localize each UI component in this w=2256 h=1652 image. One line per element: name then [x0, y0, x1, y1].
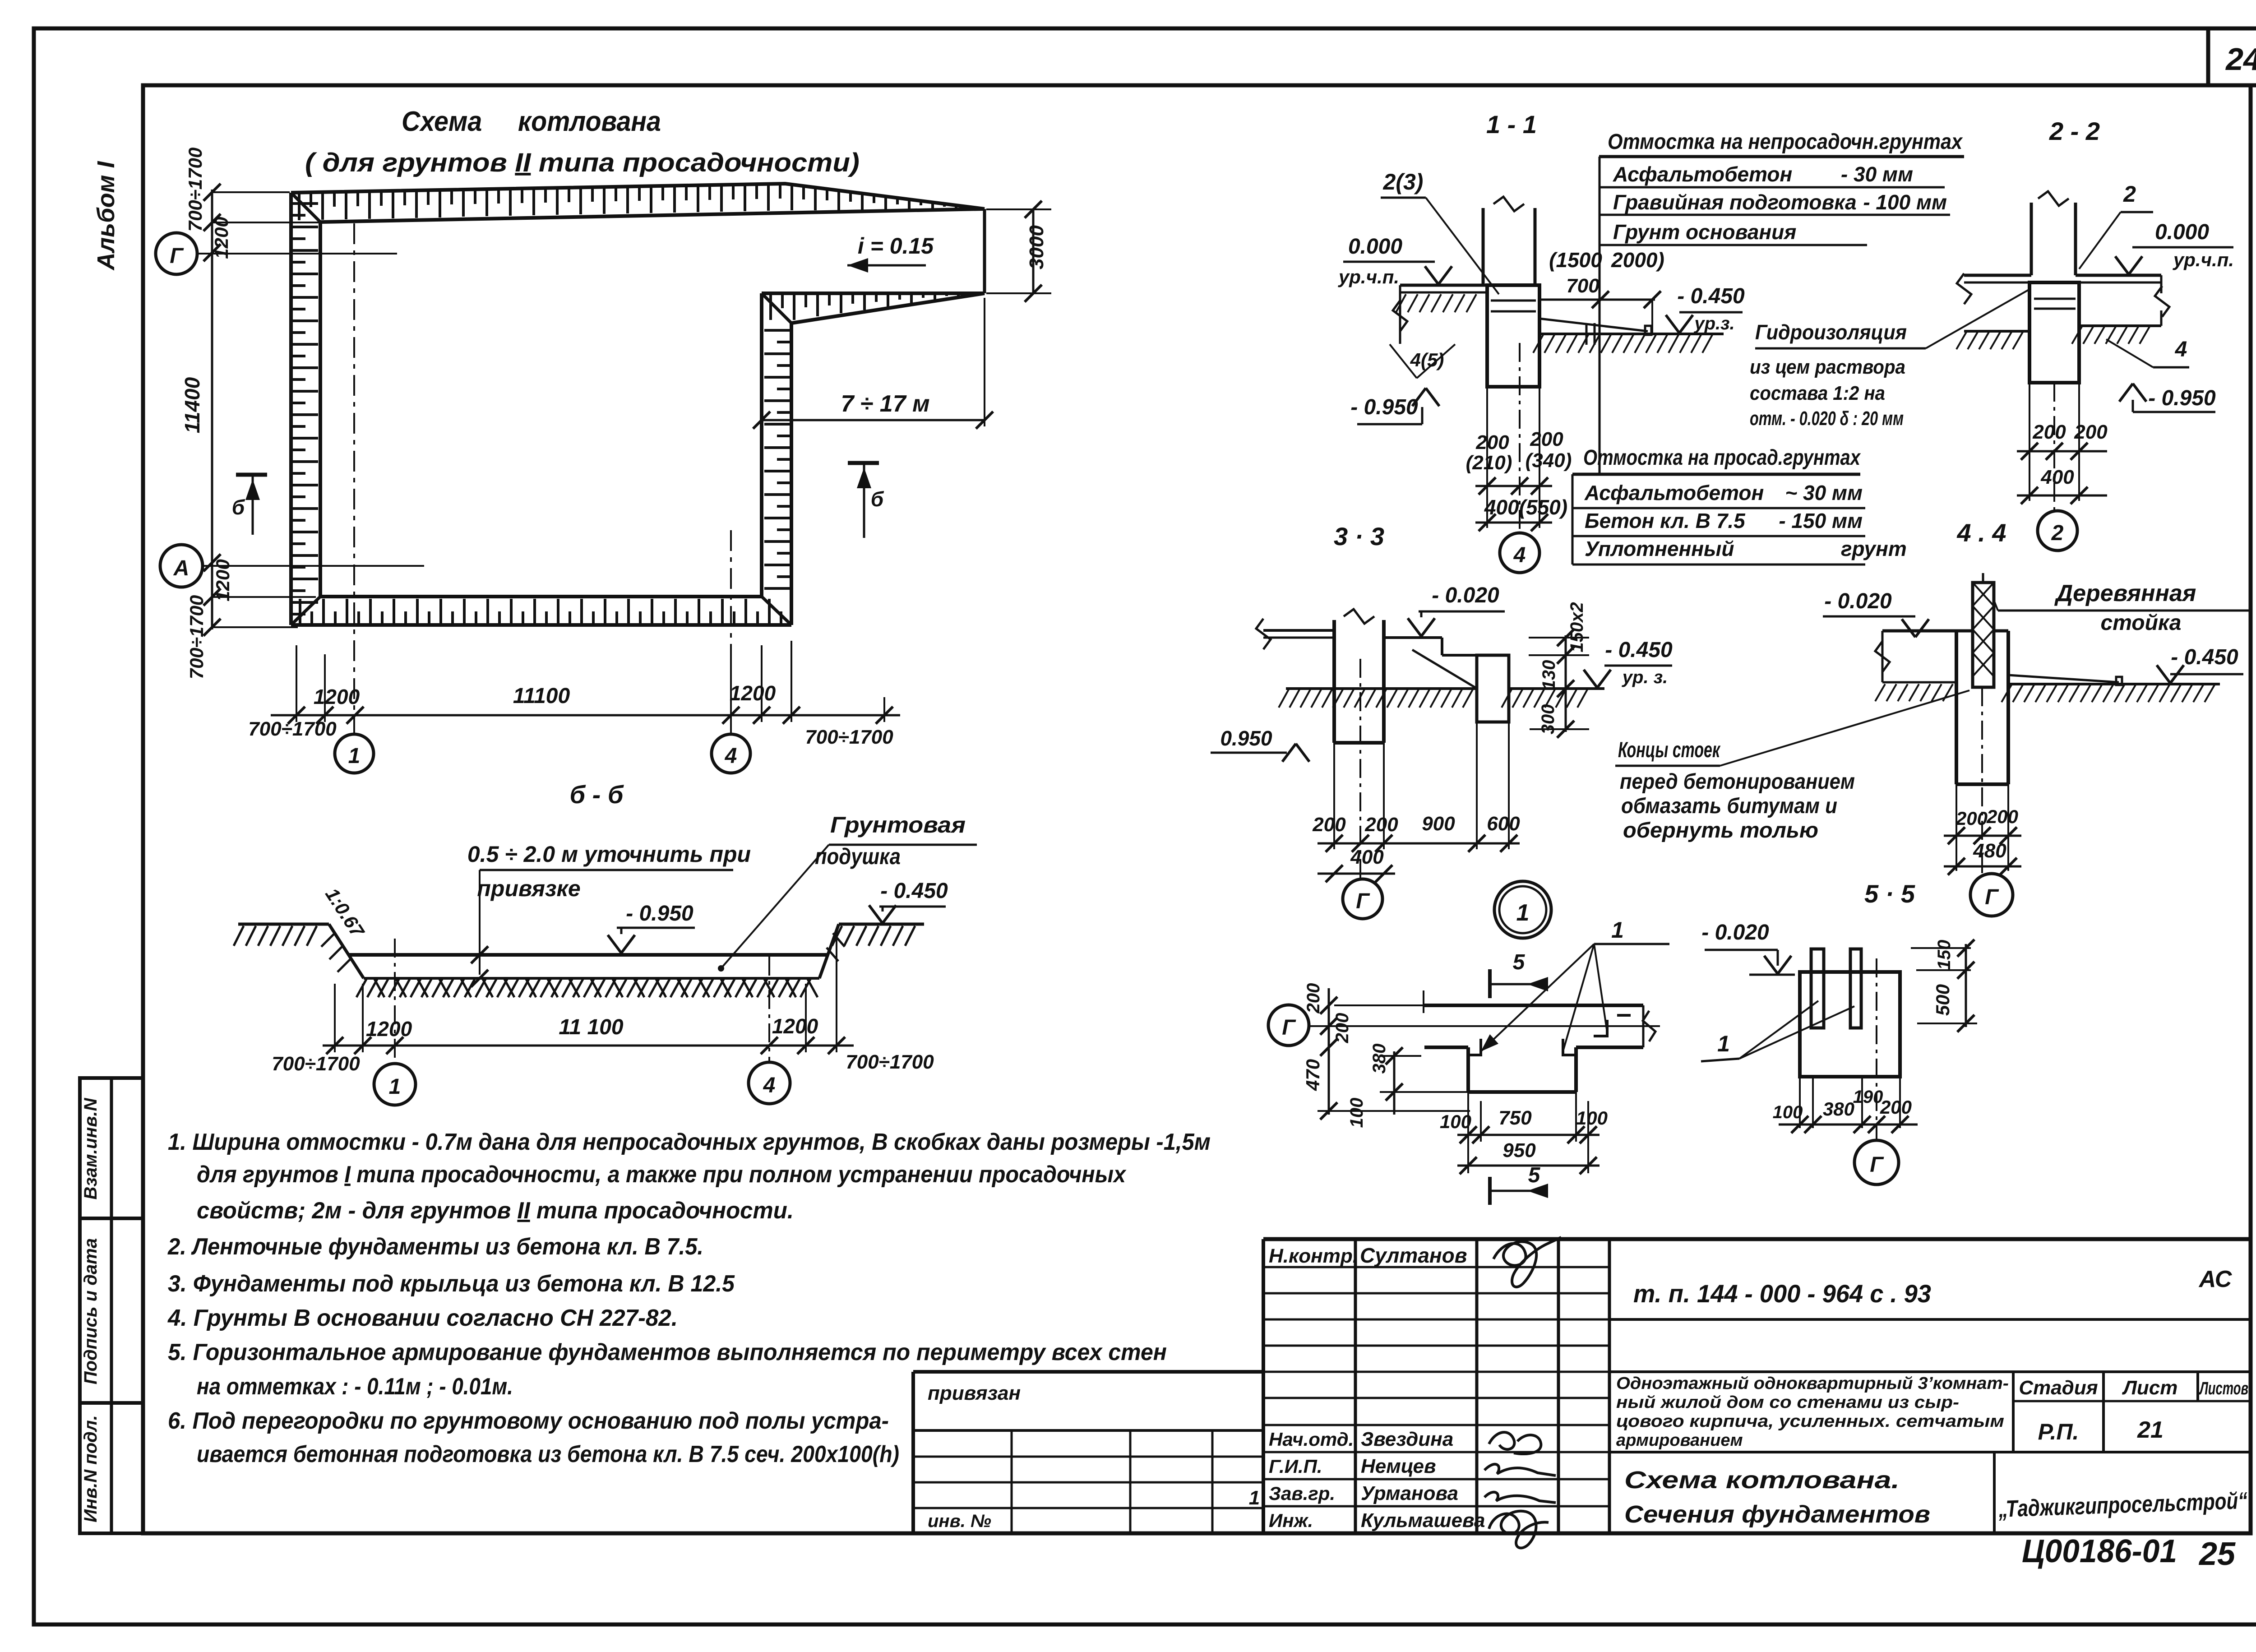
- 2-2 ground line right and hatch: [2079, 324, 2161, 327]
- svg-text:700÷1700: 700÷1700: [846, 1051, 934, 1073]
- b-b axis line 4: [768, 957, 770, 1061]
- svg-text:свойств; 2м - для грунтов II т: свойств; 2м - для грунтов II типа просад…: [197, 1198, 794, 1224]
- svg-text:2 - 2: 2 - 2: [2049, 117, 2100, 145]
- svg-text:700÷1700: 700÷1700: [272, 1053, 360, 1075]
- svg-text:1: 1: [1516, 900, 1530, 926]
- svg-text:5. Горизонтальное армирование: 5. Горизонтальное армирование фундаменто…: [168, 1339, 1167, 1365]
- 2-2 ground hatch left: [1964, 330, 2030, 333]
- b-b ground surface right: [839, 923, 924, 926]
- svg-text:950: 950: [1502, 1139, 1536, 1161]
- svg-text:стойка: стойка: [2101, 611, 2182, 635]
- svg-text:1. Ширина отмостки - 0.7м дана: 1. Ширина отмостки - 0.7м дана для непро…: [168, 1129, 1211, 1155]
- svg-text:Г: Г: [1870, 1153, 1884, 1177]
- 3-3 axis circle G: [1343, 879, 1382, 919]
- svg-text:(210): (210): [1466, 452, 1512, 474]
- note leader to wooden stake: [1720, 690, 1969, 766]
- svg-text:Г.И.П.: Г.И.П.: [1269, 1456, 1322, 1477]
- svg-text:ур.ч.п.: ур.ч.п.: [2173, 249, 2234, 270]
- 4-4 floor slab: [1882, 629, 1973, 633]
- svg-text:инв. №: инв. №: [928, 1511, 991, 1531]
- axis circle 1 (plan): [335, 734, 374, 773]
- svg-text:- 0.020: - 0.020: [1701, 921, 1769, 944]
- 4-4 otmostka wedge and ground right: [2008, 675, 2119, 682]
- 1-1 otmostka wedge right: [1539, 319, 1648, 331]
- svg-text:Урманова: Урманова: [1361, 1482, 1458, 1504]
- svg-text:- 30 мм: - 30 мм: [1841, 162, 1913, 186]
- svg-text:700: 700: [1566, 275, 1600, 297]
- svg-text:2000): 2000): [1611, 248, 1664, 272]
- 1-1 ground line right: [1539, 333, 1724, 335]
- svg-text:4: 4: [1513, 543, 1526, 567]
- svg-text:1200: 1200: [314, 685, 360, 708]
- svg-text:б: б: [871, 487, 884, 511]
- plan hatch ticks - right band: [764, 329, 791, 332]
- 3-3 floor slab left: [1263, 629, 1334, 632]
- svg-text:ный жилой дом со стенами из: ный жилой дом со стенами из сыр-: [1616, 1393, 1959, 1412]
- 5-5 right dims 150/500: [1911, 947, 1971, 949]
- 2-2 floor slab right: [2076, 274, 2161, 277]
- svg-text:0.950: 0.950: [1220, 727, 1272, 750]
- svg-text:отм. - 0.020 δ : 20 мм: отм. - 0.020 δ : 20 мм: [1750, 407, 1904, 430]
- svg-text:200: 200: [1312, 814, 1346, 836]
- dim 7-17m line: [762, 419, 985, 421]
- svg-text:1 - 1: 1 - 1: [1486, 110, 1537, 139]
- svg-text:100: 100: [1440, 1111, 1471, 1132]
- sheet number box 24: [2206, 28, 2210, 85]
- svg-text:- 0.950: - 0.950: [1350, 395, 1418, 419]
- svg-text:24: 24: [2225, 42, 2256, 77]
- 2-2 level -0.950: [2119, 384, 2133, 402]
- svg-text:200: 200: [1475, 431, 1509, 453]
- b-b pit floor lower line: [364, 977, 819, 980]
- svg-text:4: 4: [2175, 338, 2187, 361]
- svg-text:7 ÷ 17 м: 7 ÷ 17 м: [841, 391, 929, 417]
- plan pit outline - top band inner edge: [320, 209, 985, 222]
- plan hatch ticks - left band: [291, 202, 318, 205]
- svg-text:700÷1700: 700÷1700: [248, 718, 337, 740]
- uzel1 section mark 5 bottom: [1488, 1177, 1492, 1205]
- dim 3000 (ramp width): [1032, 209, 1035, 293]
- 3-3 porch footing: [1477, 655, 1509, 722]
- svg-text:А: А: [173, 556, 190, 580]
- svg-text:Г: Г: [1985, 885, 1999, 909]
- svg-text:Асфальтобетон: Асфальтобетон: [1584, 481, 1764, 504]
- b-b ground hatch left bank: [234, 926, 244, 946]
- plan hatch ticks - lower-right band: [769, 293, 772, 320]
- svg-text:- 0.450: - 0.450: [1677, 284, 1745, 308]
- svg-text:т. п. 144 - 000 - 964 с . 93: т. п. 144 - 000 - 964 с . 93: [1633, 1279, 1931, 1308]
- b-b axis line 1: [394, 939, 396, 1063]
- svg-text:700÷1700: 700÷1700: [805, 726, 893, 748]
- title block small table row lines: [1263, 1266, 1609, 1268]
- svg-text:б - б: б - б: [569, 780, 624, 809]
- plan pit outline - top band outer edge: [291, 184, 985, 209]
- 1-1 axis circle 4: [1500, 533, 1539, 573]
- plan pit outline - left band: [289, 193, 293, 625]
- uzel1 bottom dims 100/750/100 and 950: [1467, 1092, 1469, 1173]
- plan left dimension line: [211, 190, 213, 629]
- svg-text:(1500: (1500: [1549, 248, 1602, 272]
- svg-text:5: 5: [1528, 1163, 1541, 1187]
- svg-text:1200: 1200: [212, 559, 233, 601]
- axis A line: [203, 565, 424, 567]
- plan bottom dimension extensions: [296, 645, 297, 722]
- svg-text:200: 200: [1304, 983, 1323, 1014]
- 1-1 floor slab: [1400, 284, 1487, 287]
- svg-text:11100: 11100: [513, 684, 570, 708]
- 5-5 axis circle G: [1854, 1140, 1899, 1185]
- svg-text:1: 1: [1717, 1031, 1730, 1056]
- axis G line: [197, 253, 397, 255]
- privyazan table outline: [913, 1370, 1263, 1374]
- svg-text:3000: 3000: [1026, 225, 1048, 269]
- signature Sultanov: [1493, 1237, 1561, 1287]
- svg-text:Грунтовая: Грунтовая: [830, 812, 966, 838]
- svg-text:1: 1: [1249, 1487, 1260, 1509]
- svg-text:б: б: [232, 495, 245, 519]
- svg-text:i = 0.15: i = 0.15: [858, 233, 934, 259]
- 2-2 foundation body: [2029, 282, 2079, 383]
- svg-text:Г: Г: [1356, 889, 1370, 913]
- svg-text:Взам.инв.N: Взам.инв.N: [81, 1097, 101, 1199]
- svg-text:Отмостка на непросадочн.грунта: Отмостка на непросадочн.грунтах: [1608, 130, 1963, 154]
- plan pit outline - lower-right band: [762, 292, 985, 295]
- svg-text:Гравийная подготовка: Гравийная подготовка: [1613, 190, 1857, 214]
- 3-3 ground line and hatch: [1286, 687, 1477, 690]
- axis circle A: [160, 545, 203, 587]
- svg-text:- 100 мм: - 100 мм: [1863, 190, 1947, 214]
- svg-text:ур.з.: ур.з.: [1693, 314, 1734, 333]
- svg-text:на отметках : - 0.11м ; - 0.01: на отметках : - 0.11м ; - 0.01м.: [197, 1374, 513, 1400]
- svg-text:480: 480: [1973, 840, 2006, 862]
- svg-text:Сечения фундаментов: Сечения фундаментов: [1624, 1501, 1930, 1528]
- svg-text:ур.ч.п.: ур.ч.п.: [1338, 266, 1399, 287]
- svg-text:4 . 4: 4 . 4: [1957, 518, 2006, 547]
- svg-text:400: 400: [1350, 846, 1384, 868]
- 4-4 wooden stake with cross hatch: [1973, 583, 1994, 687]
- 1-1 label 4(5): [1390, 344, 1417, 378]
- svg-text:состава 1:2 на: состава 1:2 на: [1750, 382, 1885, 404]
- plan bottom dimension line: [271, 714, 900, 717]
- svg-text:Ц00186-01: Ц00186-01: [2022, 1533, 2177, 1569]
- svg-text:1200: 1200: [211, 217, 232, 259]
- b-b ground surface left: [238, 923, 329, 926]
- uzel1 wall bottom edges: [1424, 1046, 1468, 1049]
- svg-text:Р.П.: Р.П.: [2038, 1419, 2079, 1444]
- left margin label boxes: [80, 1078, 143, 1533]
- 4-4 hatch under floor slab: [1875, 684, 1885, 701]
- uzel1 recess: [1466, 1047, 1470, 1092]
- uzel1 wall top edge: [1424, 1004, 1643, 1007]
- svg-text:( для грунтов II типа проса: ( для грунтов II типа просадочности): [305, 148, 860, 177]
- 5-5 bottom dims 100/380/190/200: [1799, 1077, 1801, 1128]
- svg-text:6. Под перегородки по грунтово: 6. Под перегородки по грунтовому основан…: [168, 1408, 889, 1434]
- 5-5 axis line: [1876, 958, 1877, 1140]
- svg-text:для грунтов I типа просадочнос: для грунтов I типа просадочности, а такж…: [197, 1161, 1127, 1188]
- 2-2 dims 200/200 and 400: [2029, 383, 2030, 501]
- svg-text:Инж.: Инж.: [1269, 1510, 1313, 1531]
- svg-text:Схема котлована.: Схема котлована.: [1624, 1467, 1900, 1494]
- svg-text:150: 150: [1934, 940, 1954, 970]
- svg-text:Грунт основания: Грунт основания: [1613, 220, 1796, 244]
- svg-text:- 0.950: - 0.950: [626, 902, 693, 925]
- uzel1 axis line: [1309, 1025, 1660, 1027]
- svg-text:- 0.450: - 0.450: [880, 879, 948, 903]
- svg-text:Султанов: Султанов: [1360, 1244, 1467, 1267]
- 5-5 embedded plate left: [1811, 949, 1824, 1028]
- plan pit outline - bottom band: [291, 623, 791, 627]
- 5-5 embedded plate right: [1850, 949, 1861, 1028]
- axis 1 line: [353, 223, 355, 734]
- svg-text:4. Грунты В основании согласно: 4. Грунты В основании согласно СН 227-82…: [167, 1305, 678, 1331]
- 1-1 hatch under floor left of foundation: [1396, 294, 1406, 312]
- svg-text:150х2: 150х2: [1567, 602, 1587, 652]
- svg-text:Альбом I: Альбом I: [92, 161, 120, 271]
- svg-text:3. Фундаменты под крыльца из б: 3. Фундаменты под крыльца из бетона кл. …: [168, 1271, 735, 1297]
- b-b bottom dimension extensions: [334, 984, 336, 1052]
- svg-text:Нач.отд.: Нач.отд.: [1269, 1429, 1354, 1450]
- svg-text:200: 200: [1332, 1013, 1352, 1044]
- 2-2 floor slab left: [1964, 274, 2031, 277]
- svg-text:11 100: 11 100: [559, 1015, 624, 1039]
- svg-text:200: 200: [1530, 428, 1563, 450]
- svg-text:Стадия: Стадия: [2019, 1377, 2098, 1399]
- svg-text:обернуть толью: обернуть толью: [1623, 819, 1818, 842]
- svg-text:Отмостка на просад.грунтах: Отмостка на просад.грунтах: [1583, 446, 1861, 470]
- b-b ground hatch right bank: [832, 926, 842, 946]
- svg-text:200: 200: [1986, 806, 2018, 827]
- stadiya table columns: [2012, 1372, 2015, 1452]
- svg-text:5 · 5: 5 · 5: [1864, 879, 1915, 908]
- svg-text:Гидроизоляция: Гидроизоляция: [1755, 320, 1907, 344]
- svg-text:300: 300: [1538, 704, 1558, 735]
- svg-text:Листов: Листов: [2199, 1379, 2248, 1398]
- svg-text:Немцев: Немцев: [1361, 1455, 1436, 1477]
- uzel1 left dims 200/200/470 and 380/100: [1328, 988, 1330, 1115]
- 1-1 table border extension vertical: [1599, 157, 1601, 474]
- title block right section row lines: [1609, 1318, 2251, 1321]
- svg-text:100: 100: [1576, 1107, 1608, 1129]
- svg-text:Зав.гр.: Зав.гр.: [1269, 1483, 1335, 1504]
- svg-text:1200: 1200: [366, 1017, 412, 1041]
- uzel1 axis circle G: [1268, 1005, 1309, 1046]
- plan left dimension extensions: [212, 191, 290, 193]
- svg-text:200: 200: [1956, 808, 1988, 829]
- svg-text:500: 500: [1932, 984, 1953, 1016]
- b-b axis circle 4: [749, 1062, 790, 1104]
- 2-2 wall above (cut): [2030, 203, 2033, 275]
- svg-text:Звездина: Звездина: [1361, 1428, 1453, 1450]
- plan hatch ticks - top band: [298, 193, 300, 220]
- svg-text:ивается бетонная подготовка из: ивается бетонная подготовка из бетона кл…: [197, 1441, 899, 1467]
- 1-1 under-foundation dim 200/200: [1486, 387, 1488, 528]
- svg-text:4: 4: [725, 744, 737, 768]
- svg-text:2: 2: [2051, 521, 2064, 545]
- plan pit outline - right band: [790, 323, 793, 625]
- svg-text:400(550): 400(550): [1484, 495, 1567, 519]
- svg-text:600: 600: [1487, 813, 1520, 835]
- svg-text:2. Ленточные фундаменты из бет: 2. Ленточные фундаменты из бетона кл. В …: [167, 1234, 703, 1260]
- 4-4 axis circle G: [1970, 874, 2013, 916]
- svg-text:380: 380: [1823, 1098, 1854, 1120]
- svg-text:Схема котлована: Схема котлована: [402, 106, 661, 137]
- svg-text:200: 200: [2074, 421, 2108, 443]
- uzel1 right end break: [1642, 1005, 1645, 1047]
- svg-text:Одноэтажный одноквартирный 3’к: Одноэтажный одноквартирный 3’комнат-: [1616, 1374, 2009, 1393]
- 1-1 foundation body: [1487, 285, 1539, 387]
- svg-text:700÷1700: 700÷1700: [185, 148, 206, 232]
- svg-text:Кульмашева: Кульмашева: [1361, 1509, 1485, 1532]
- 3-3 step profile right of wall: [1384, 636, 1442, 639]
- svg-text:11400: 11400: [180, 377, 204, 433]
- svg-text:Асфальтобетон: Асфальтобетон: [1613, 162, 1792, 186]
- svg-text:- 0.020: - 0.020: [1824, 589, 1892, 613]
- uzel1 rebar hooks: [1467, 1039, 1481, 1055]
- svg-text:750: 750: [1498, 1107, 1532, 1129]
- 3-3 wall and footing: [1332, 620, 1336, 743]
- b-b left slope: [329, 924, 364, 978]
- svg-text:900: 900: [1422, 813, 1455, 835]
- svg-text:1: 1: [389, 1075, 401, 1099]
- svg-text:привязке: привязке: [477, 876, 580, 901]
- svg-text:0.5 ÷ 2.0 м уточнить при: 0.5 ÷ 2.0 м уточнить при: [467, 842, 751, 867]
- uzel1 left end extension: [1423, 990, 1424, 1013]
- 5-5 foundation block: [1800, 972, 1900, 1077]
- 3-3 right dim chain 150x2/130/300: [1565, 635, 1567, 732]
- svg-text:5: 5: [1513, 950, 1526, 974]
- svg-text:25: 25: [2198, 1536, 2236, 1572]
- svg-text:- 0.950: - 0.950: [2148, 386, 2216, 410]
- svg-text:100: 100: [1773, 1102, 1803, 1122]
- tadjik box divider: [1993, 1452, 1996, 1533]
- b-b right slope: [819, 924, 839, 978]
- b-b pit floor upper line: [349, 953, 828, 957]
- svg-text:Лист: Лист: [2122, 1377, 2178, 1399]
- svg-text:грунт: грунт: [1841, 537, 1907, 560]
- 4-4 dims 200/200 and 480: [1956, 784, 1957, 871]
- svg-text:Деревянная: Деревянная: [2054, 580, 2196, 606]
- svg-text:- 0.020: - 0.020: [1432, 583, 1499, 607]
- axis circle 4 (plan): [712, 734, 750, 773]
- svg-text:470: 470: [1302, 1059, 1323, 1091]
- svg-text:1: 1: [348, 744, 361, 768]
- svg-text:АС: АС: [2198, 1266, 2233, 1292]
- svg-text:130: 130: [1539, 660, 1559, 690]
- svg-text:ур. з.: ур. з.: [1622, 667, 1668, 687]
- svg-text:Концы стоек: Концы стоек: [1618, 738, 1721, 762]
- svg-text:1200: 1200: [730, 681, 776, 705]
- svg-text:Бетон кл. В 7.5: Бетон кл. В 7.5: [1585, 509, 1746, 532]
- svg-text:4(5): 4(5): [1410, 349, 1444, 370]
- svg-text:Г: Г: [1282, 1016, 1296, 1040]
- svg-text:- 150 мм: - 150 мм: [1779, 509, 1863, 532]
- svg-text:~ 30 мм: ~ 30 мм: [1785, 481, 1863, 504]
- svg-text:Подпись и дата: Подпись и дата: [81, 1238, 101, 1384]
- svg-text:21: 21: [2137, 1417, 2164, 1443]
- svg-text:перед бетонированием: перед бетонированием: [1620, 770, 1855, 794]
- svg-text:200: 200: [2032, 421, 2066, 443]
- 4-4 foundation: [1955, 631, 1958, 784]
- b-b bottom dimension line: [323, 1045, 854, 1047]
- svg-text:Г: Г: [170, 244, 184, 268]
- 3-3 under dims 200/200/900/600: [1333, 743, 1335, 849]
- plan pit outline - ramp mouth right edge: [983, 209, 986, 293]
- 1-1 wall above (cut): [1482, 208, 1485, 285]
- svg-text:цового кирпича, усиленных. сет: цового кирпича, усиленных. сетчатым: [1616, 1412, 2004, 1431]
- axis circle G: [156, 233, 197, 274]
- svg-text:армированием: армированием: [1616, 1431, 1743, 1450]
- section mark b right: [848, 461, 879, 465]
- uzel1 section mark 5 top: [1488, 969, 1492, 998]
- svg-text:0.000: 0.000: [1348, 235, 1402, 259]
- svg-text:190: 190: [1853, 1087, 1883, 1107]
- svg-text:Уплотненный: Уплотненный: [1585, 537, 1734, 560]
- detail circle 1 (double ring): [1494, 881, 1551, 938]
- title block small table column lines: [1354, 1239, 1357, 1533]
- section mark b left: [236, 473, 267, 477]
- svg-text:обмазать битумам и: обмазать битумам и: [1621, 794, 1837, 818]
- svg-text:4: 4: [763, 1074, 776, 1097]
- svg-text:700÷1700: 700÷1700: [186, 595, 207, 680]
- b-b pit floor hatch: [356, 979, 366, 997]
- svg-text:400: 400: [2040, 466, 2074, 488]
- b-b axis circle 1: [374, 1064, 416, 1105]
- svg-text:подушка: подушка: [815, 844, 901, 869]
- svg-text:Н.контр.: Н.контр.: [1269, 1245, 1358, 1267]
- axis 4 line: [730, 530, 732, 734]
- privyazan grid: [913, 1429, 1263, 1432]
- svg-text:1200: 1200: [772, 1014, 818, 1038]
- 2-2 axis circle 2: [2038, 511, 2077, 551]
- svg-text:0.000: 0.000: [2155, 220, 2209, 244]
- svg-text:2(3): 2(3): [1383, 169, 1424, 194]
- plan hatch ticks - bottom band: [299, 599, 301, 625]
- svg-text:Инв.N подл.: Инв.N подл.: [81, 1415, 101, 1522]
- svg-text:привязан: привязан: [928, 1382, 1021, 1404]
- svg-text:380: 380: [1369, 1044, 1389, 1074]
- plan corner diagonals: [291, 193, 320, 222]
- svg-text:200: 200: [1364, 814, 1398, 836]
- svg-text:- 0.450: - 0.450: [1605, 638, 1673, 662]
- svg-text:из цем раствора: из цем раствора: [1750, 356, 1905, 378]
- svg-text:100: 100: [1347, 1098, 1367, 1128]
- svg-text:3 · 3: 3 · 3: [1334, 522, 1384, 551]
- svg-text:- 0.450: - 0.450: [2171, 645, 2238, 669]
- svg-text:200: 200: [1880, 1097, 1912, 1118]
- svg-text:1: 1: [1611, 917, 1624, 943]
- title block small table outer: [1263, 1237, 2251, 1241]
- svg-text:(340): (340): [1526, 449, 1572, 472]
- svg-text:2: 2: [2123, 181, 2136, 207]
